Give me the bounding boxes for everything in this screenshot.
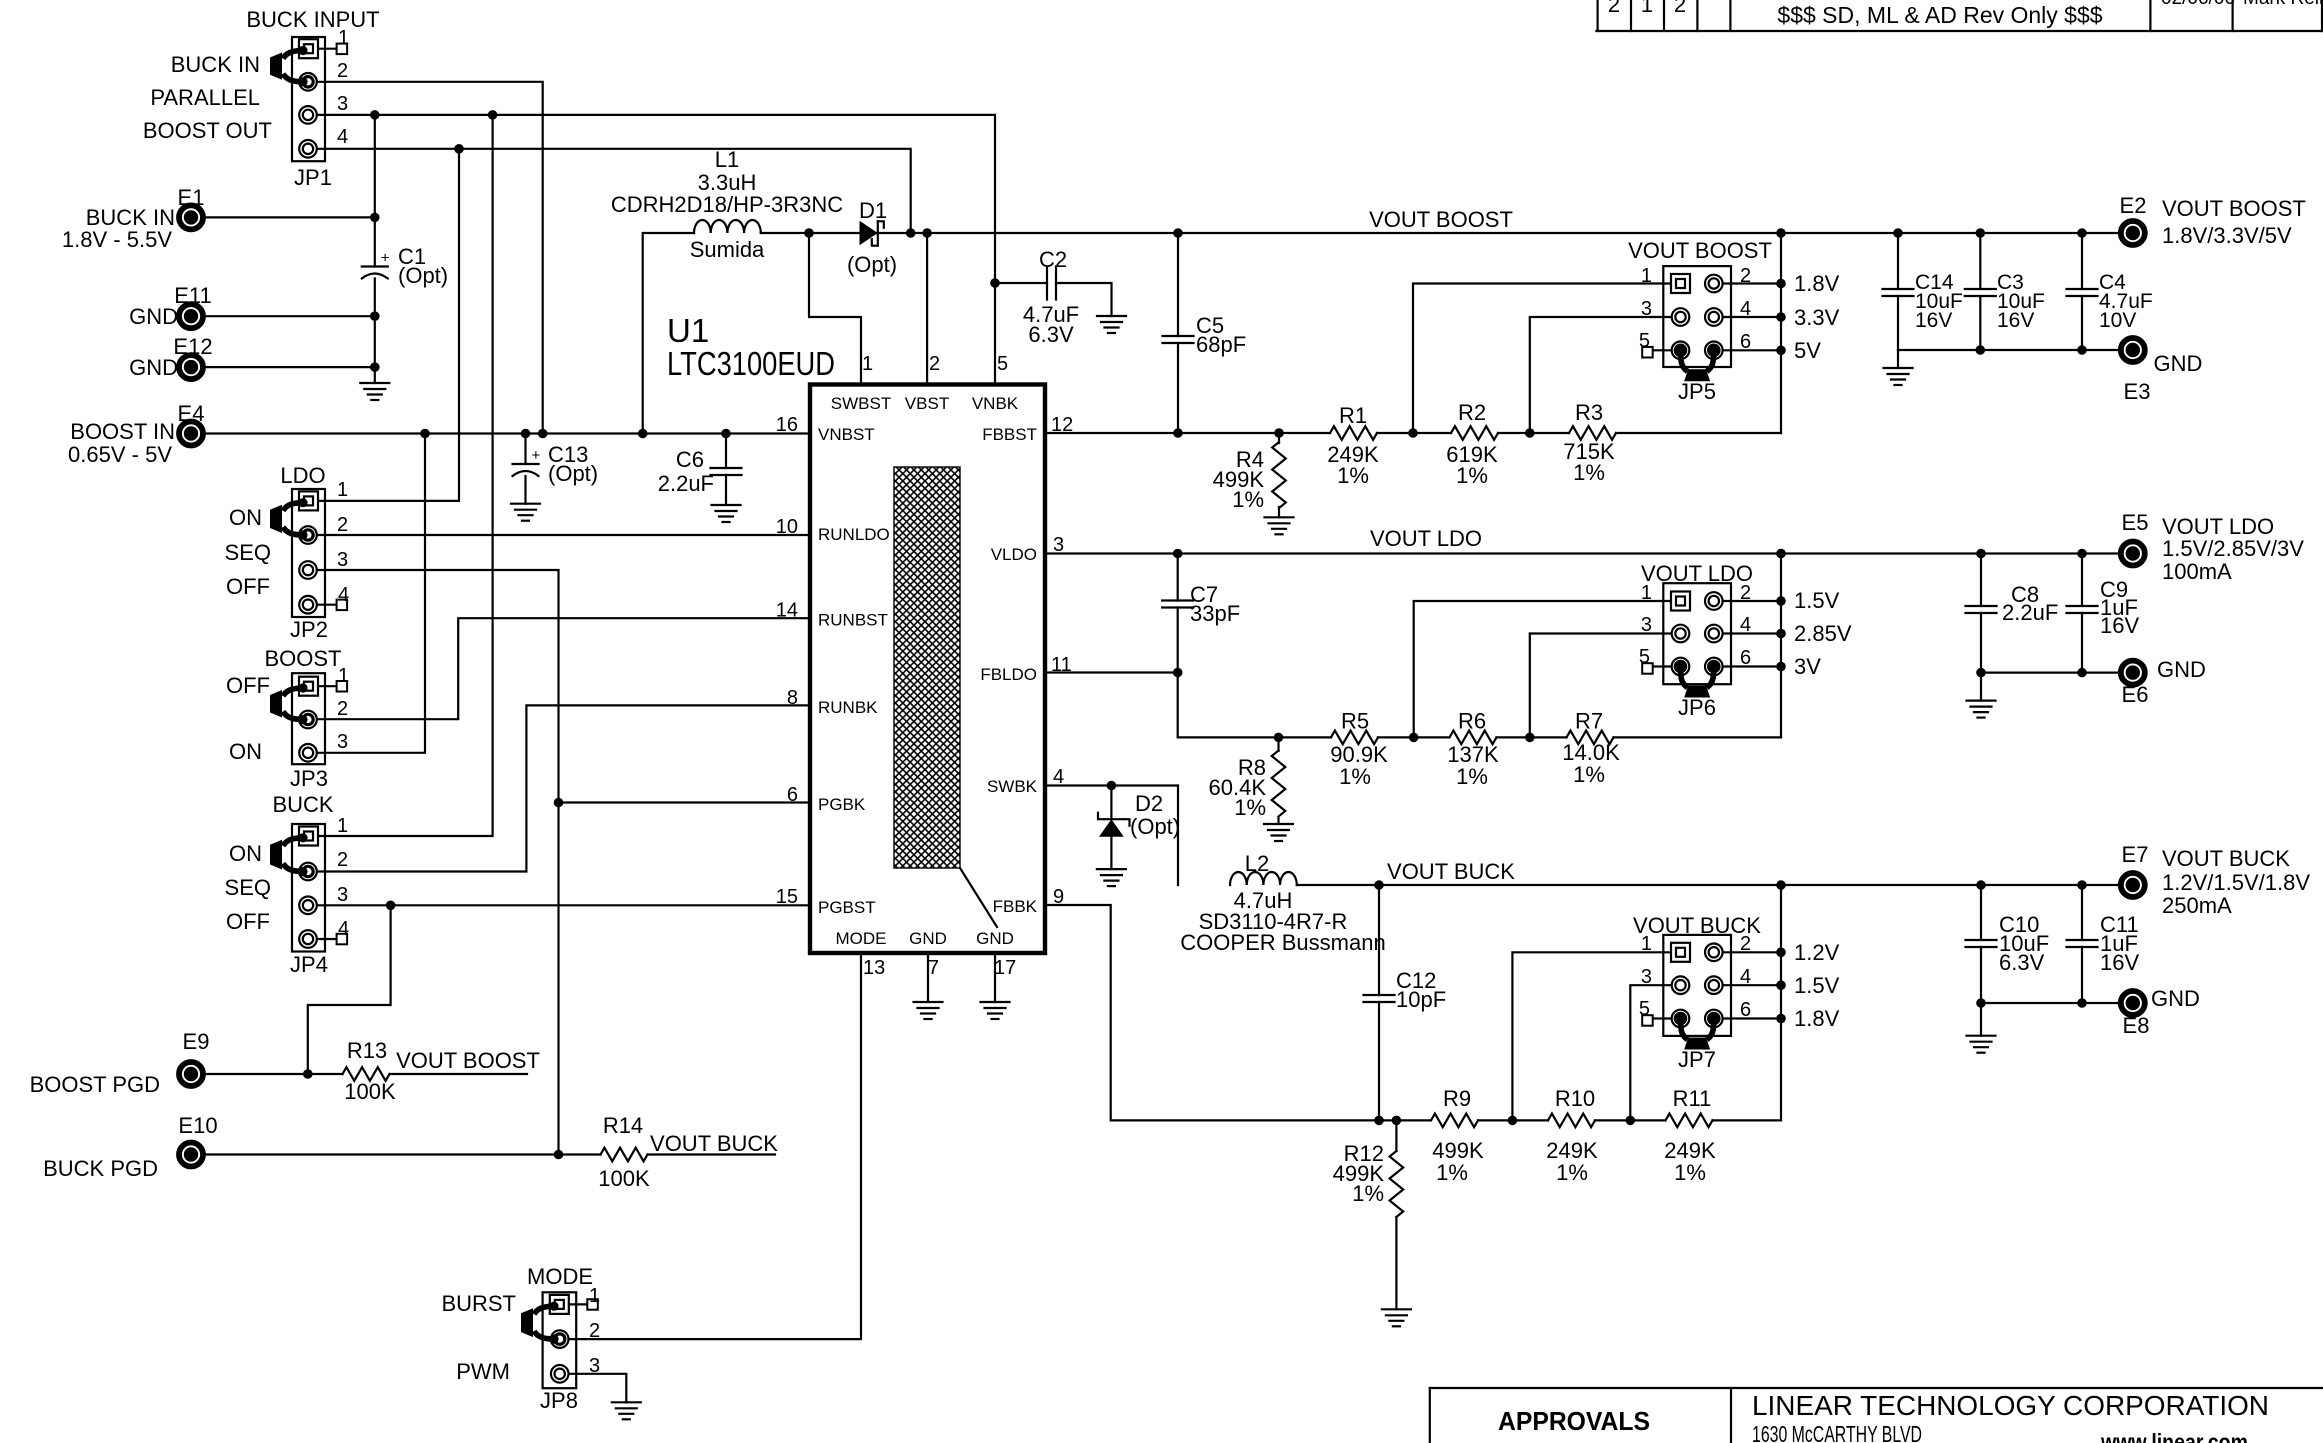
- junction E9 / PGBST branch: [303, 1069, 313, 1079]
- turret E8: [2121, 991, 2145, 1015]
- svg-text:1.8V: 1.8V: [1794, 271, 1840, 296]
- svg-text:1: 1: [862, 353, 873, 375]
- svg-text:1: 1: [1641, 0, 1653, 17]
- svg-text:5: 5: [1639, 998, 1650, 1020]
- svg-text:1%: 1%: [1234, 795, 1266, 820]
- svg-text:R5: R5: [1341, 709, 1369, 734]
- resistor R13: [343, 1067, 390, 1081]
- capacitor C12 top lead: [1378, 885, 1380, 995]
- svg-text:6: 6: [1740, 331, 1751, 353]
- svg-text:3: 3: [1641, 966, 1652, 988]
- svg-text:APPROVALS: APPROVALS: [1498, 1406, 1650, 1436]
- svg-text:1.5V: 1.5V: [1794, 588, 1840, 613]
- diode D1 (Schottky): [860, 221, 878, 246]
- wire LDO gnd rail: [1981, 671, 2118, 673]
- junction boost rail / VBST: [922, 228, 932, 238]
- junction C1 / E11 wire: [370, 311, 380, 321]
- wire JP5 pin2 to output column: [1714, 282, 1781, 284]
- jumper shunt JP5 pins 5-6: [1681, 350, 1688, 371]
- connector JP3 pads: [299, 677, 318, 696]
- capacitor C10: [1966, 939, 1997, 941]
- junction C1 / E12 wire: [370, 362, 380, 372]
- capacitor C11 top lead: [2081, 885, 2083, 940]
- svg-text:2: 2: [337, 698, 348, 720]
- svg-text:BOOST PGD: BOOST PGD: [30, 1072, 160, 1097]
- svg-text:1: 1: [1641, 582, 1652, 604]
- capacitor C9 top lead: [2081, 554, 2083, 607]
- svg-text:16V: 16V: [1997, 309, 2034, 332]
- junction R5-R6 / JP6 pin1: [1409, 733, 1419, 743]
- wire C1 top branch: [374, 115, 376, 267]
- svg-text:LTC3100EUD: LTC3100EUD: [667, 345, 835, 382]
- svg-text:2: 2: [1674, 0, 1686, 17]
- ground buck rail: [1980, 1003, 1982, 1036]
- header JP6 pads: [1671, 592, 1690, 611]
- junction VOUT BUCK / select column: [1776, 880, 1786, 890]
- wire JP6 pin2 to output column: [1714, 600, 1781, 602]
- net stub square JP4 pin4: [337, 934, 348, 945]
- svg-text:E2: E2: [2120, 193, 2147, 218]
- svg-text:PGBK: PGBK: [818, 795, 866, 814]
- svg-text:1%: 1%: [1573, 460, 1605, 485]
- svg-text:FBLDO: FBLDO: [980, 665, 1037, 684]
- junction buck gnd rail C10: [1976, 998, 1986, 1008]
- junction C12 bottom: [1374, 1116, 1384, 1126]
- capacitor C11 bottom lead: [2081, 947, 2083, 1003]
- junction R1-R2 / JP5 pin1: [1408, 428, 1418, 438]
- junction VNBST rail / C6: [721, 429, 731, 439]
- wire U1 GND pin17: [994, 953, 996, 1002]
- ground U1 pin7: [914, 1001, 943, 1003]
- svg-text:VOUT BOOST: VOUT BOOST: [2162, 196, 2306, 221]
- connector JP1 body: [292, 37, 325, 161]
- svg-text:GND: GND: [976, 929, 1014, 948]
- wire C5 lower lead to FBBST: [1177, 343, 1179, 433]
- wire U1 GND pin7: [927, 953, 929, 1002]
- svg-text:VOUT BUCK: VOUT BUCK: [1387, 859, 1515, 884]
- svg-text:5: 5: [997, 353, 1008, 375]
- net stub square JP7 pin5: [1642, 1015, 1653, 1025]
- svg-text:2.2uF: 2.2uF: [2002, 600, 2058, 625]
- svg-text:GND: GND: [2154, 351, 2203, 376]
- svg-text:SEQ: SEQ: [225, 875, 271, 900]
- svg-text:VOUT BOOST: VOUT BOOST: [1369, 207, 1513, 232]
- header JP5 body: [1663, 266, 1731, 367]
- connector JP8 body: [543, 1292, 577, 1388]
- svg-text:4: 4: [337, 126, 348, 148]
- svg-text:R13: R13: [347, 1038, 387, 1063]
- wire JP6 pin6 to output column: [1714, 665, 1781, 667]
- wire U1 PGBK to sequencing branch: [559, 801, 811, 803]
- ground below R12: [1382, 1308, 1411, 1310]
- wire E9 to R13: [206, 1073, 343, 1075]
- junction JP1 pin3 / C1 branch: [370, 110, 380, 120]
- junction R6-R7 / JP6 pin3: [1525, 733, 1535, 743]
- wire buck gnd rail: [1981, 1002, 2118, 1004]
- wire JP2 pin3 to PGBK / BUCK PGD branch: [317, 570, 559, 1155]
- svg-text:JP8: JP8: [540, 1388, 578, 1413]
- svg-text:3: 3: [337, 731, 348, 753]
- svg-text:GND: GND: [2157, 657, 2206, 682]
- svg-text:1%: 1%: [1232, 487, 1264, 512]
- junction L1-D1 / SWBST branch: [804, 228, 814, 238]
- svg-text:6: 6: [1740, 647, 1751, 669]
- svg-text:$$$ SD, ML & AD Rev Only $$$: $$$ SD, ML & AD Rev Only $$$: [1777, 2, 2102, 28]
- svg-text:ON: ON: [229, 841, 262, 866]
- svg-text:C2: C2: [1039, 247, 1067, 272]
- wire R6-R7: [1497, 736, 1567, 738]
- net stub square JP2 pin4: [337, 600, 348, 611]
- svg-text:BUCK PGD: BUCK PGD: [43, 1156, 158, 1181]
- wire C5 upper lead: [1177, 233, 1179, 336]
- svg-text:E7: E7: [2122, 842, 2149, 867]
- resistor R10: [1548, 1114, 1595, 1128]
- jumper shunt JP7 pins 5-6: [1681, 1019, 1688, 1040]
- svg-text:5: 5: [1639, 330, 1650, 352]
- wire PGBST branch down to E9: [308, 905, 391, 1074]
- junction 1.5V tap buck: [1776, 980, 1786, 990]
- wire VOUT LDO select column: [1780, 554, 1782, 738]
- capacitor C10 top lead: [1980, 885, 1982, 940]
- capacitor C7 lower lead to FBLDO: [1177, 608, 1179, 673]
- svg-text:PGBST: PGBST: [818, 898, 876, 917]
- wire C13 to ground: [524, 476, 526, 504]
- svg-text:C6: C6: [676, 447, 704, 472]
- wire R7 to select column: [1614, 736, 1782, 738]
- svg-text:Mark Rellas: Mark Rellas: [2243, 0, 2323, 9]
- capacitor C2: [1046, 267, 1048, 300]
- capacitor C4 bottom lead: [2081, 296, 2083, 350]
- capacitor C11: [2067, 939, 2098, 941]
- resistor R1: [1330, 426, 1377, 440]
- capacitor C4: [2067, 288, 2098, 290]
- svg-text:BUCK IN: BUCK IN: [171, 52, 260, 77]
- svg-text:3: 3: [589, 1355, 600, 1377]
- svg-text:1%: 1%: [1337, 463, 1369, 488]
- svg-text:10pF: 10pF: [1396, 987, 1446, 1012]
- wire JP7 pin1 to R9-R10 node: [1512, 952, 1680, 1120]
- junction VNBST rail / L1 branch: [638, 429, 648, 439]
- capacitor C3: [1965, 288, 1996, 290]
- U1 pad to GND pin17 leader line: [960, 868, 997, 927]
- wire C1 bottom to ground: [374, 279, 376, 384]
- junction boost rail / JP1 pin4 branch: [906, 228, 916, 238]
- svg-text:6: 6: [1740, 999, 1751, 1021]
- junction R2-R3 / JP5 pin3: [1525, 428, 1535, 438]
- svg-text:L2: L2: [1245, 851, 1269, 876]
- header JP6 body: [1663, 583, 1731, 684]
- wire JP5 pin3 to R2-R3 node: [1530, 317, 1681, 433]
- jumper shunt JP4 pins 1-2: [283, 838, 303, 846]
- wire JP8 pin1 stub: [568, 1303, 588, 1305]
- svg-text:0.65V - 5V: 0.65V - 5V: [68, 442, 172, 467]
- capacitor C1: [362, 265, 388, 267]
- capacitor C3 bottom lead: [1979, 296, 1981, 350]
- svg-text:JP3: JP3: [290, 766, 328, 791]
- svg-text:3: 3: [1641, 298, 1652, 320]
- svg-text:PWM: PWM: [456, 1359, 510, 1384]
- svg-text:1%: 1%: [1436, 1160, 1468, 1185]
- capacitor C8 top lead: [1980, 554, 1982, 607]
- svg-text:Sumida: Sumida: [690, 237, 765, 262]
- ground below R8: [1264, 823, 1293, 825]
- capacitor C14: [1883, 288, 1914, 290]
- junction VOUT BUCK / C12: [1374, 880, 1384, 890]
- connector JP8 pads: [550, 1295, 569, 1314]
- wire JP1 pin1 stub: [317, 48, 337, 50]
- svg-text:100mA: 100mA: [2162, 559, 2232, 584]
- junction 3.3V tap: [1776, 312, 1786, 322]
- turret E7: [2121, 873, 2145, 897]
- svg-text:1%: 1%: [1556, 1160, 1588, 1185]
- svg-text:17: 17: [994, 957, 1016, 979]
- svg-text:1: 1: [337, 815, 348, 837]
- svg-text:1: 1: [338, 27, 349, 49]
- capacitor C3 top lead: [1979, 233, 1981, 289]
- svg-text:(Opt): (Opt): [548, 461, 598, 486]
- net stub square JP5 pin5: [1642, 347, 1653, 358]
- svg-text:R7: R7: [1575, 709, 1603, 734]
- junction 5V tap: [1776, 346, 1786, 356]
- junction 1.8V tap: [1776, 279, 1786, 289]
- wire C6 lead: [725, 434, 727, 469]
- svg-text:R10: R10: [1555, 1086, 1595, 1111]
- title block border: [1430, 1387, 2323, 1389]
- wire JP6 pin1 to R5-R6 node: [1414, 601, 1681, 737]
- svg-text:D1: D1: [859, 198, 887, 223]
- svg-text:VBST: VBST: [905, 394, 949, 413]
- capacitor C14 bottom lead: [1897, 296, 1899, 350]
- svg-text:LINEAR TECHNOLOGY CORPORATION: LINEAR TECHNOLOGY CORPORATION: [1752, 1390, 2269, 1421]
- wire U1 SWBST pin1 to L1/D1 node: [809, 233, 861, 385]
- svg-text:3: 3: [337, 549, 348, 571]
- svg-text:GND: GND: [2151, 986, 2200, 1011]
- svg-text:BOOST IN: BOOST IN: [70, 419, 175, 444]
- wire JP3 pin2 to U1 RUNBST: [317, 618, 810, 719]
- svg-text:R2: R2: [1458, 400, 1486, 425]
- wire U1 SWBK to L2: [1045, 786, 1178, 886]
- svg-text:6.3V: 6.3V: [1999, 950, 2045, 975]
- svg-text:1%: 1%: [1456, 463, 1488, 488]
- capacitor C14 top lead: [1897, 233, 1899, 289]
- wire C6 to ground: [725, 475, 727, 505]
- ground below JP8 pin3: [612, 1401, 641, 1403]
- svg-text:VOUT BUCK: VOUT BUCK: [2162, 846, 2290, 871]
- capacitor C12 bottom lead: [1378, 1002, 1380, 1120]
- wire E10 to R14: [206, 1153, 601, 1155]
- wire JP1 pin3 PARALLEL to U1 VNBK: [317, 115, 995, 385]
- svg-text:16V: 16V: [1915, 309, 1952, 332]
- svg-text:33pF: 33pF: [1190, 601, 1240, 626]
- svg-text:2.2uF: 2.2uF: [658, 471, 714, 496]
- wire JP4 pin4 stub: [317, 938, 337, 940]
- junction boost rail / C5: [1173, 228, 1183, 238]
- svg-text:ON: ON: [229, 505, 262, 530]
- connector JP3 body: [292, 673, 325, 764]
- ground boost rail: [1897, 350, 1899, 368]
- turret E10: [179, 1143, 203, 1167]
- svg-text:R3: R3: [1575, 400, 1603, 425]
- net stub square JP1 pin1: [337, 44, 348, 55]
- ground below C1: [360, 382, 389, 384]
- net stub square JP8 pin1: [587, 1299, 598, 1310]
- svg-text:3V: 3V: [1794, 654, 1821, 679]
- svg-text:R6: R6: [1458, 709, 1486, 734]
- junction LDO gnd rail C8: [1976, 668, 1986, 678]
- svg-text:JP4: JP4: [290, 952, 328, 977]
- wire JP3 pin3 to VNBST rail: [317, 434, 425, 753]
- wire JP7 pin6 to output column: [1714, 1017, 1781, 1019]
- svg-text:+: +: [381, 250, 390, 267]
- wire E12 to ground node: [206, 366, 375, 368]
- svg-text:2: 2: [1740, 933, 1751, 955]
- svg-text:4: 4: [338, 918, 349, 940]
- wire E11 to ground node: [206, 315, 375, 317]
- wire JP5 pin5 stub: [1653, 349, 1681, 351]
- wire JP7 pin4 to output column: [1714, 984, 1781, 986]
- junction 3V tap: [1776, 662, 1786, 672]
- junction SWBK / D2: [1107, 781, 1117, 791]
- svg-text:1: 1: [1641, 265, 1652, 287]
- wire JP5 pin4 to output column: [1714, 316, 1781, 318]
- svg-text:SEQ: SEQ: [225, 540, 271, 565]
- wire C2 to ground: [1056, 283, 1112, 316]
- capacitor C8 bottom lead: [1980, 613, 1982, 673]
- svg-text:13: 13: [863, 957, 885, 979]
- svg-text:2: 2: [1740, 265, 1751, 287]
- wire JP7 pin5 stub: [1653, 1017, 1681, 1019]
- svg-text:+: +: [532, 447, 541, 464]
- svg-text:JP7: JP7: [1678, 1047, 1716, 1072]
- junction R10-R11 / JP7 pin3: [1626, 1116, 1636, 1126]
- svg-text:1: 1: [1641, 933, 1652, 955]
- U1 exposed pad hatch: [894, 467, 960, 868]
- svg-text:250mA: 250mA: [2162, 893, 2232, 918]
- svg-text:RUNBK: RUNBK: [818, 698, 878, 717]
- turret E5: [2121, 542, 2145, 566]
- capacitor C6: [711, 467, 742, 469]
- junction 1.8V tap buck: [1776, 1014, 1786, 1024]
- svg-text:100K: 100K: [598, 1166, 650, 1191]
- capacitor C10 bottom lead: [1980, 947, 1982, 1003]
- wire JP8 pin2 to U1 MODE pin13: [560, 953, 861, 1339]
- wire JP7 pin2 to output column: [1714, 951, 1781, 953]
- jumper shunt JP6 pins 5-6: [1681, 667, 1688, 688]
- ground below C2: [1097, 315, 1126, 317]
- svg-text:ON: ON: [229, 739, 262, 764]
- wire JP4 pin2 to U1 RUNBK: [317, 705, 810, 871]
- wire VOUT BOOST select column: [1780, 233, 1782, 433]
- wire R10-R11: [1595, 1119, 1666, 1121]
- junction FBLDO / C7 / divider: [1173, 668, 1183, 678]
- resistor R5: [1331, 731, 1378, 745]
- junction 2.85V tap: [1776, 629, 1786, 639]
- junction 1.2V tap: [1776, 948, 1786, 958]
- svg-text:E6: E6: [2122, 682, 2149, 707]
- wire JP3 pin1 stub: [317, 685, 337, 687]
- svg-text:1: 1: [338, 665, 349, 687]
- svg-text:GND: GND: [129, 304, 178, 329]
- svg-text:2: 2: [337, 60, 348, 82]
- net stub square JP3 pin1: [337, 681, 348, 692]
- svg-text:U1: U1: [667, 312, 709, 349]
- svg-text:OFF: OFF: [226, 574, 270, 599]
- wire JP6 pin5 stub: [1653, 665, 1681, 667]
- svg-text:VOUT BOOST: VOUT BOOST: [1628, 238, 1772, 263]
- inductor L2: [1230, 872, 1297, 885]
- capacitor C9: [2067, 605, 2098, 607]
- capacitor C9 bottom lead: [2081, 613, 2083, 673]
- svg-text:1.2V/1.5V/1.8V: 1.2V/1.5V/1.8V: [2162, 870, 2310, 895]
- svg-text:1%: 1%: [1674, 1160, 1706, 1185]
- svg-text:2.85V: 2.85V: [1794, 621, 1852, 646]
- capacitor C8: [1966, 605, 1997, 607]
- wire U1 FBLDO: [1045, 671, 1178, 673]
- junction gnd rail C4: [2077, 345, 2087, 355]
- svg-text:PARALLEL: PARALLEL: [150, 85, 260, 110]
- junction boost rail / select column: [1776, 228, 1786, 238]
- svg-text:OFF: OFF: [226, 673, 270, 698]
- junction VNBST rail / JP1 pin2 branch: [538, 429, 548, 439]
- wire VNBST rail E4 to U1 pin16: [206, 432, 811, 434]
- svg-text:3.3V: 3.3V: [1794, 305, 1840, 330]
- svg-text:1630 McCARTHY BLVD: 1630 McCARTHY BLVD: [1752, 1421, 1922, 1443]
- wire FBLDO down to divider row: [1178, 673, 1331, 738]
- wire JP4 pin3 / U1 PGBST: [317, 904, 810, 906]
- svg-text:L1: L1: [715, 147, 739, 172]
- junction VLDO / C7: [1173, 549, 1183, 559]
- junction PGBST / BOOST PGD branch: [386, 901, 396, 911]
- svg-text:2: 2: [337, 514, 348, 536]
- wire JP5 pin1 to R1-R2 node: [1413, 284, 1681, 434]
- diode D2 (Schottky, optional): [1110, 786, 1112, 820]
- ground below R4: [1265, 516, 1294, 518]
- junction buck gnd rail C11: [2077, 998, 2087, 1008]
- svg-text:VNBK: VNBK: [972, 394, 1019, 413]
- svg-text:E10: E10: [178, 1113, 217, 1138]
- svg-text:SWBK: SWBK: [987, 777, 1038, 796]
- svg-text:1%: 1%: [1339, 764, 1371, 789]
- svg-text:SWBST: SWBST: [831, 394, 891, 413]
- wire R13 to VOUT BOOST stub: [390, 1073, 528, 1075]
- svg-text:D2: D2: [1135, 791, 1163, 816]
- wire JP2 pin4 stub: [317, 604, 337, 606]
- svg-text:(Opt): (Opt): [1130, 814, 1180, 839]
- svg-text:16V: 16V: [2100, 950, 2139, 975]
- svg-text:2: 2: [337, 849, 348, 871]
- svg-text:VOUT BOOST: VOUT BOOST: [396, 1048, 540, 1073]
- svg-text:LDO: LDO: [280, 463, 325, 488]
- svg-text:JP2: JP2: [290, 617, 328, 642]
- jumper shunt JP1 pins 1-2: [283, 51, 303, 59]
- svg-text:3: 3: [337, 93, 348, 115]
- header JP7 body: [1663, 935, 1731, 1036]
- wire R14 to VOUT BUCK stub: [648, 1153, 776, 1155]
- wire VOUT LDO rail: [1045, 552, 2118, 554]
- svg-text:1.5V/2.85V/3V: 1.5V/2.85V/3V: [2162, 536, 2304, 561]
- wire boost gnd rail: [1898, 349, 2118, 351]
- svg-text:4: 4: [338, 584, 349, 606]
- svg-text:E3: E3: [2124, 379, 2151, 404]
- svg-text:FBBK: FBBK: [993, 897, 1038, 916]
- svg-text:E9: E9: [183, 1029, 210, 1054]
- svg-text:GND: GND: [129, 355, 178, 380]
- svg-text:1.8V - 5.5V: 1.8V - 5.5V: [62, 227, 172, 252]
- turret E3: [2121, 338, 2145, 362]
- svg-text:BUCK INPUT: BUCK INPUT: [246, 7, 379, 32]
- wire JP7 pin3 to R10-R11 node: [1630, 985, 1680, 1120]
- resistor R12: [1395, 1120, 1397, 1151]
